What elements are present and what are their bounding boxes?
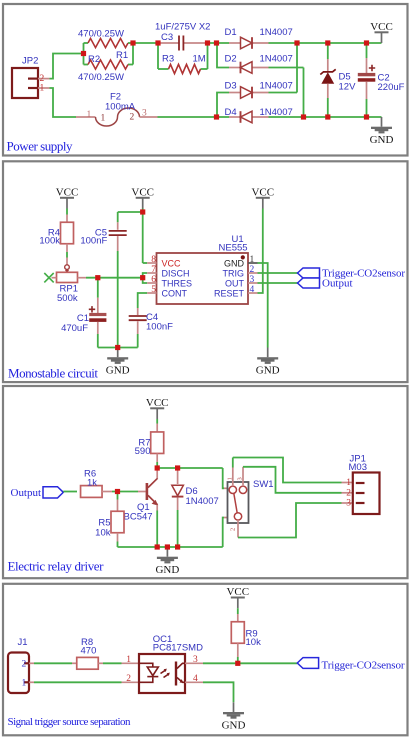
svg-text:Electric relay driver: Electric relay driver [8,559,105,574]
svg-text:10k: 10k [95,528,111,539]
svg-text:3: 3 [346,499,351,509]
svg-text:DISCH: DISCH [162,269,190,279]
svg-text:1uF/275V X2: 1uF/275V X2 [155,22,210,33]
svg-text:470/0.25W: 470/0.25W [78,72,124,83]
svg-text:JP2: JP2 [22,56,38,67]
svg-text:BC547: BC547 [124,512,153,523]
svg-text:C3: C3 [161,32,173,43]
svg-text:2: 2 [230,528,237,531]
svg-text:500k: 500k [57,293,78,304]
svg-text:100mA: 100mA [105,102,136,113]
svg-text:3: 3 [250,275,255,285]
svg-text:10k: 10k [246,637,262,648]
svg-text:8: 8 [151,255,156,265]
svg-text:590: 590 [135,446,151,457]
svg-text:NE555: NE555 [219,243,248,254]
svg-text:4: 4 [250,285,255,295]
svg-text:Power supply: Power supply [7,139,74,154]
svg-text:1N4007: 1N4007 [260,107,293,118]
svg-text:RESET: RESET [214,289,245,299]
svg-text:1N4007: 1N4007 [260,54,293,65]
svg-text:470/0.25W: 470/0.25W [78,29,124,40]
svg-text:1M: 1M [193,54,206,65]
svg-text:VCC: VCC [162,259,182,269]
svg-text:3: 3 [142,109,147,119]
svg-text:Trigger-CO2sensor: Trigger-CO2sensor [322,659,405,671]
svg-text:R1: R1 [116,50,128,61]
svg-text:12V: 12V [339,82,357,93]
svg-text:Output: Output [322,277,353,289]
svg-text:SW1: SW1 [253,479,274,490]
svg-text:2: 2 [250,265,255,275]
svg-text:OUT: OUT [225,279,245,289]
svg-text:7: 7 [151,265,156,275]
svg-text:5: 5 [151,285,156,295]
svg-text:D3: D3 [225,81,237,92]
svg-text:2: 2 [126,674,131,684]
svg-text:Monostable circuit: Monostable circuit [8,366,98,381]
svg-text:R3: R3 [162,54,174,65]
svg-text:J1: J1 [18,637,28,648]
svg-text:D2: D2 [225,54,237,65]
svg-text:1k: 1k [87,477,97,488]
svg-text:6: 6 [151,275,156,285]
svg-text:1: 1 [40,84,45,94]
svg-text:R2: R2 [88,54,100,65]
svg-text:D1: D1 [225,27,237,38]
svg-text:D4: D4 [225,107,237,118]
svg-text:1: 1 [87,110,92,120]
svg-text:1N4007: 1N4007 [260,27,293,38]
svg-text:470uF: 470uF [61,323,88,334]
svg-text:M03: M03 [349,462,367,473]
svg-text:Signal trigger source separati: Signal trigger source separation [8,716,132,728]
svg-text:1N4007: 1N4007 [260,81,293,92]
svg-text:2: 2 [346,488,351,498]
svg-text:470: 470 [81,646,97,657]
svg-text:100k: 100k [39,236,60,247]
svg-text:2: 2 [22,659,27,669]
svg-text:1: 1 [22,678,27,688]
svg-text:1N4007: 1N4007 [186,496,219,507]
svg-text:1: 1 [346,478,351,488]
svg-text:GND: GND [224,259,245,269]
svg-text:CONT: CONT [162,289,188,299]
svg-text:PC817SMD: PC817SMD [153,642,203,653]
svg-text:100nF: 100nF [146,322,173,333]
svg-text:1: 1 [250,255,255,265]
svg-text:Output: Output [11,487,42,499]
svg-text:1: 1 [101,114,106,124]
svg-text:THRES: THRES [162,279,193,289]
svg-text:TRIG: TRIG [223,269,245,279]
svg-text:220uF: 220uF [378,82,405,93]
svg-text:100nF: 100nF [80,236,107,247]
svg-text:2: 2 [130,113,135,123]
svg-text:1: 1 [126,655,131,665]
